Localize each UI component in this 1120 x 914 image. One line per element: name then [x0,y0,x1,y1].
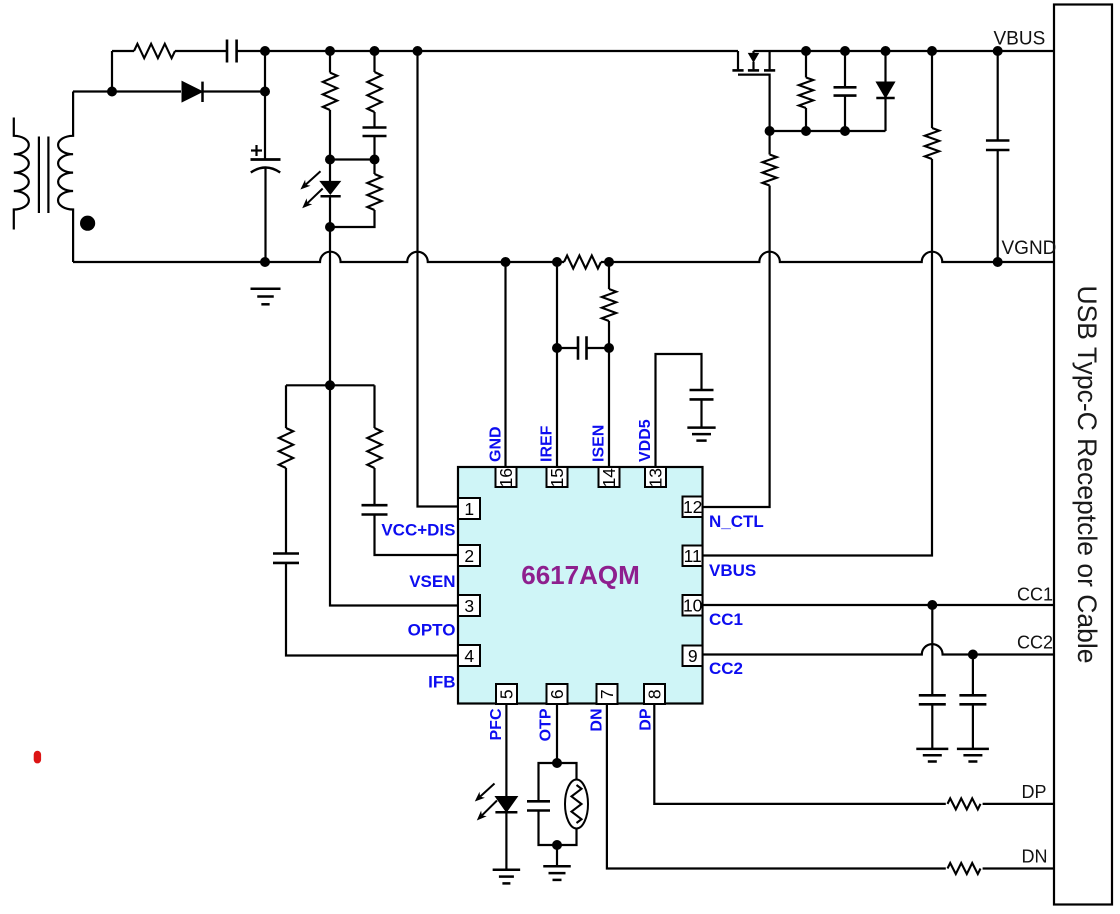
ground GND6 [543,865,571,868]
diode D2 [876,82,894,98]
svg-text:CC1: CC1 [709,610,743,629]
wire OTP to ground [556,845,558,866]
transistor Q1 gate [738,75,770,131]
node VGND-C5 [993,257,1003,267]
wire node F down to R4 [373,160,375,175]
wire D3 to ground [505,812,507,870]
node VGND-pin16 [501,257,511,267]
pin 15 [547,467,568,487]
node G1 [325,222,335,232]
wire C1 to MOSFET Q1 [237,50,738,52]
wire node H to R11 [373,385,375,428]
capacitor C1 [226,40,229,63]
node F1 [370,155,380,165]
transistor Q1 drain terminal [737,51,739,69]
wire VBUS to R7 [931,51,933,128]
pin 13 [645,467,666,487]
wire DN to receptacle [983,867,1054,869]
wire R7 over VGND to pin11 [703,159,932,556]
node VBUS-D2 [881,46,891,56]
pin 12 [683,497,703,518]
svg-text:14: 14 [599,468,619,488]
wire node H to R10 [285,385,287,428]
wire pin8 DP [654,704,946,804]
ground GND1 [251,287,281,290]
resistor R12 [948,798,981,809]
capacitor C8 [273,552,299,555]
wire C3 to node F [373,136,375,160]
wire pin6 OTP [556,704,558,763]
svg-text:VBUS: VBUS [994,29,1046,50]
svg-text:VCC+DIS: VCC+DIS [381,521,455,540]
svg-text:DN: DN [589,709,606,732]
LED D3 light arrows [480,784,494,797]
node VBUS-R5 [801,46,811,56]
transistor Q1 source terminal [768,51,770,69]
wire VBUS to R3 [373,51,375,72]
capacitor C7 [690,389,714,392]
wire gate node horizontal [770,130,886,132]
wire R10 to C8 [285,468,287,554]
node IREF-C6 [552,343,562,353]
wire R4 to node G [330,210,375,227]
ground GND3 [916,748,948,751]
svg-text:N_CTL: N_CTL [709,512,764,531]
svg-text:DN: DN [1022,847,1048,867]
wire C8 to pin4 [286,563,458,656]
svg-text:6: 6 [547,689,567,699]
wire VGND rail [73,252,564,262]
node I2 [801,126,811,136]
svg-text:6617AQM: 6617AQM [521,560,640,590]
pin 2 [458,545,480,566]
node VGND-R9 [604,257,614,267]
capacitor C12 [959,694,986,697]
wire rail1 to C2 [264,51,266,159]
svg-text:4: 4 [464,646,474,666]
node CC1-C11 [927,600,937,610]
resistor R6 [762,155,776,186]
wire C7 to ground [700,399,702,427]
svg-text:USB Typc-C Receptcle or Cable: USB Typc-C Receptcle or Cable [1072,285,1102,663]
wire CC2 to C12 [972,655,974,696]
optocoupler LED U2 light arrows [306,171,321,184]
wire C4 to node I [844,96,846,131]
pin 6 [547,684,568,704]
diode D1 [182,81,203,101]
node OTP-top [552,758,562,768]
svg-text:VDD5: VDD5 [637,419,654,462]
svg-text:CC2: CC2 [1017,633,1053,653]
svg-text:CC2: CC2 [709,659,743,678]
capacitor C10 [527,800,550,803]
wire C11 to ground [931,704,933,749]
pin 3 [458,595,480,616]
connector J1 USB Type-C receptacle box [1054,5,1112,905]
svg-text:12: 12 [683,497,702,517]
resistor R13 [948,863,981,874]
wire pin15 IREF lower [556,348,558,467]
svg-text:DP: DP [638,708,655,731]
node rail2-B [260,87,270,97]
node VBUS-R3 [370,46,380,56]
svg-text:IFB: IFB [428,673,455,692]
wire OTP cap branch [539,763,558,801]
svg-text:9: 9 [688,646,698,666]
svg-text:OTP: OTP [538,708,555,741]
svg-text:16: 16 [496,468,516,487]
svg-text:CC1: CC1 [1017,585,1053,605]
pin 1 [458,498,480,519]
thermistor RT1 [565,780,588,829]
capacitor C3 [363,126,387,129]
node VBUS-R2 [325,46,335,56]
svg-text:VGND: VGND [1002,238,1057,259]
pin 16 [496,467,517,487]
wire VBUS to pin1 [418,51,459,507]
ground GND5 [493,869,521,872]
svg-text:1: 1 [464,499,474,519]
pin 11 [683,546,703,567]
node rail2-A [107,87,117,97]
wire node H horizontal [286,384,375,386]
pin 9 [683,646,703,667]
wire VBUS to D2 [884,51,886,82]
wire rail2 left [73,90,181,92]
wire DP to receptacle [983,803,1054,805]
resistor R3 [367,72,381,112]
LED D3 [495,797,517,813]
capacitor C11 [919,694,946,697]
svg-text:OPTO: OPTO [408,621,456,640]
node VBUS-C5 [993,46,1003,56]
wire node E to node F [330,158,375,160]
pin 5 [496,684,517,704]
resistor R4 [367,174,381,210]
transformer T1 secondary winding [58,92,73,263]
wire VBUS to R2 [329,51,331,73]
wire rail2 right [202,90,266,92]
wire node H to pin3 [330,385,458,605]
wire VBUS to C5 [997,51,999,141]
resistor R9 [602,289,616,321]
svg-text:10: 10 [683,596,703,616]
pin 4 [458,645,480,666]
node VBUS-R7 [927,46,937,56]
resistor R5 [799,78,813,109]
wire R9 to node ISEN [608,321,610,348]
wire VBUS rail left segment [112,50,134,52]
svg-text:15: 15 [547,468,567,487]
wire R11 to C9 [373,468,375,505]
node VBUS-C4 [840,46,850,56]
wire C5 to VGND [997,150,999,262]
wire R5 to node I [805,108,807,131]
node VBUS-C2 [260,46,270,56]
wire C2 to VGND [264,168,266,262]
wire gate node to R6 [768,131,770,155]
node H1 [325,380,335,390]
svg-text:2: 2 [464,546,474,566]
wire pin16 GND [504,262,506,467]
ground GND2 [687,426,715,429]
wire CC1 to C11 [931,605,933,695]
wire rail1 to rail2 stub [111,51,113,92]
resistor R1 [134,44,175,58]
wire pin5 PFC [505,704,507,797]
resistor R7 [925,128,939,159]
wire OTP thermistor branch [557,763,577,780]
svg-text:7: 7 [597,689,617,699]
wire C9 to pin2 [375,515,459,556]
node VGND-C2 [260,257,270,267]
node VBUS-pin1 [413,46,423,56]
transformer T1 phase dot [80,216,95,231]
svg-text:13: 13 [646,468,666,487]
wire VGND to R9 [608,262,610,289]
svg-text:VSEN: VSEN [409,572,455,591]
red mark [34,751,41,764]
capacitor C4 [834,86,857,89]
node VGND-pin15 [552,257,562,267]
node I3 [840,126,850,136]
node OTP-bottom [552,840,562,850]
wire CC2 pin9 [703,644,1054,654]
svg-text:PFC: PFC [488,708,505,740]
node I1 [765,126,775,136]
wire R1 to C1 [175,50,227,52]
ground GND4 [957,748,989,751]
wire VBUS to C4 [844,51,846,87]
wire pin13 VDD5 [656,354,702,467]
node E1 [325,155,335,165]
pin 7 [597,684,618,704]
svg-text:3: 3 [464,596,474,616]
transistor Q1 body arrow [749,53,759,61]
capacitor C5 [986,139,1010,142]
wire pin7 DN [607,704,946,869]
optocoupler LED U2 anode wire [329,160,331,182]
pin 8 [644,684,665,704]
pin 14 [599,467,620,487]
svg-text:IREF: IREF [539,425,556,462]
resistor R8 current sense [564,256,601,269]
capacitor C2 [251,158,281,161]
wire R2 to node E [329,110,331,160]
wire VBUS to R5 [805,51,807,78]
transformer T1 core [38,137,40,214]
wire D2 to node I [884,98,886,131]
wire U2 cathode to node G [329,196,331,227]
wire C12 to ground [972,704,974,749]
wire CC1 pin10 [703,604,1054,606]
node ISEN-C6 [604,343,614,353]
wire R3 to C3 [373,112,375,128]
wire pin15 IREF upper [556,262,558,348]
pin 10 [683,595,703,616]
capacitor C6 [557,347,578,349]
node CC2-C12 [968,650,978,660]
svg-text:8: 8 [644,689,664,699]
wire R6 over VGND to pin12 [703,186,770,508]
capacitor C2 plus sign [251,149,262,151]
resistor R11 [367,428,381,468]
svg-text:GND: GND [487,426,504,462]
transformer T1 primary winding [14,118,29,230]
optocoupler LED U2 [320,181,340,194]
svg-text:VBUS: VBUS [709,561,756,580]
svg-text:ISEN: ISEN [591,425,608,462]
svg-text:11: 11 [684,546,702,566]
svg-text:DP: DP [1022,782,1047,802]
op-amp U1 body [458,467,703,704]
capacitor C9 [362,504,388,507]
wire VBUS rail right of Q1 [754,50,1055,52]
resistor R10 [279,428,293,468]
wire node ISEN to pin14 [608,348,610,467]
resistor R2 [323,73,337,110]
svg-text:5: 5 [496,689,516,699]
wire node G to OPTO branch [329,227,331,385]
